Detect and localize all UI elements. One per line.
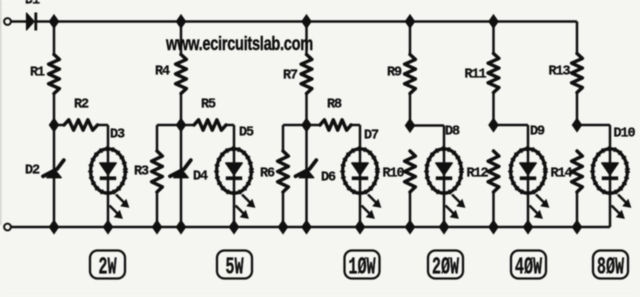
svg-text:D5: D5 — [239, 126, 254, 141]
resistor R10 — [405, 151, 416, 192]
svg-text:5W: 5W — [225, 254, 244, 282]
bottom rail wire — [11, 226, 610, 229]
resistor R7 — [301, 55, 312, 94]
wire: rail to R4 — [180, 22, 183, 55]
node (stage 4 mid junction) — [405, 119, 414, 132]
junction: R3 on bottom rail — [152, 220, 161, 233]
LED D9 — [527, 148, 530, 227]
svg-text:R8: R8 — [327, 98, 342, 113]
svg-text:R1: R1 — [30, 66, 45, 81]
node C (top rail junction, stage 3) — [302, 15, 311, 28]
svg-text:D2: D2 — [25, 164, 40, 179]
resistor R8 — [307, 124, 321, 127]
svg-text:1ØW: 1ØW — [348, 254, 376, 282]
junction: D5 on bottom rail — [229, 220, 238, 233]
wire: R3 to bottom rail — [156, 192, 159, 227]
wire: rail to R11 — [492, 22, 495, 54]
junction: D2 on bottom rail — [49, 220, 58, 233]
svg-text:D8: D8 — [445, 125, 460, 140]
wire: node to R6 — [283, 124, 307, 127]
resistor R1 — [49, 55, 60, 94]
resistor R9 — [405, 55, 416, 94]
wire: R5 to D5 — [226, 124, 234, 127]
input terminal (top) — [4, 18, 11, 25]
wire: R6 to bottom rail — [282, 192, 285, 227]
node (stage 5 mid junction) — [489, 118, 498, 131]
node E (top rail junction, stage 5) — [489, 15, 498, 28]
wire: R4 to node — [180, 94, 183, 126]
value label 10W box — [345, 251, 380, 279]
wire: R7 to node — [305, 94, 308, 126]
node (stage 1 mid junction) — [49, 118, 58, 131]
LED D10 — [609, 148, 612, 192]
resistor R11 — [488, 54, 499, 93]
svg-text:R14: R14 — [550, 167, 572, 182]
junction: D3 on bottom rail — [103, 220, 112, 233]
junction: R14 on bottom rail — [572, 220, 581, 233]
svg-text:R11: R11 — [464, 68, 486, 83]
resistor R12 — [488, 151, 499, 192]
svg-text:D6: D6 — [321, 171, 336, 186]
node (stage 2 mid junction) — [176, 118, 185, 131]
zener diode D4 — [180, 125, 183, 227]
LED D7 — [359, 148, 362, 227]
svg-text:R13: R13 — [548, 65, 570, 80]
wire: R10 to bottom rail — [409, 192, 412, 227]
wire: R12 to bottom rail — [492, 192, 495, 227]
svg-text:R7: R7 — [283, 69, 298, 84]
svg-text:D3: D3 — [110, 128, 125, 143]
resistor R13 — [572, 54, 583, 93]
wire: node to R3 — [157, 124, 181, 127]
wire: R1 to node — [53, 94, 56, 126]
resistor R5 — [181, 124, 194, 127]
svg-text:D4: D4 — [193, 170, 208, 185]
zener diode D2 — [53, 125, 56, 227]
LED D3 light arrows — [116, 195, 127, 206]
svg-text:D10: D10 — [613, 127, 635, 142]
diode D1 — [27, 13, 35, 30]
svg-text:R4: R4 — [155, 65, 170, 80]
wire: node to D9 — [494, 124, 529, 127]
svg-text:R3: R3 — [134, 165, 149, 180]
node B (top rail junction, stage 2) — [176, 15, 185, 28]
junction: R6 on bottom rail — [278, 220, 287, 233]
wire: node to D10 — [577, 124, 610, 127]
wire: bottom rail corner up to D10 — [609, 193, 612, 228]
wire: R14 to bottom rail — [576, 192, 579, 227]
zener diode D6 — [305, 125, 308, 227]
junction: D7 on bottom rail — [355, 220, 364, 233]
svg-text:R6: R6 — [260, 167, 275, 182]
LED D9 light arrows — [536, 195, 547, 206]
left edge scan artifact — [0, 0, 1, 225]
wire: node to D8 — [410, 124, 444, 127]
resistor R4 — [176, 55, 187, 94]
wire: terminal to D1 — [11, 20, 27, 23]
wire: rail to R9 — [409, 22, 412, 55]
node (stage 6 mid junction) — [572, 118, 581, 131]
junction: D4 on bottom rail — [176, 220, 185, 233]
node A (top rail junction, stage 1) — [49, 15, 58, 28]
wire: R2 to D3 — [98, 124, 109, 127]
svg-text:D1: D1 — [25, 0, 40, 8]
svg-text:D7: D7 — [364, 129, 379, 144]
svg-text:www.ecircuitslab.com: www.ecircuitslab.com — [165, 32, 313, 55]
value label 2W box — [90, 251, 125, 279]
wire: R9 to node — [409, 94, 412, 126]
top rail wire — [37, 20, 577, 23]
svg-text:D9: D9 — [530, 125, 545, 140]
LED D10 light arrows — [618, 195, 629, 206]
junction: D8 on bottom rail — [439, 220, 448, 233]
svg-text:8ØW: 8ØW — [597, 254, 625, 282]
svg-text:R12: R12 — [466, 167, 488, 182]
svg-text:2W: 2W — [98, 254, 117, 282]
junction: R10 on bottom rail — [405, 220, 414, 233]
resistor R2 — [54, 124, 64, 127]
svg-text:R9: R9 — [387, 66, 402, 81]
LED D5 — [233, 148, 236, 227]
svg-text:2ØW: 2ØW — [432, 254, 460, 282]
resistor R6 — [278, 151, 289, 192]
junction: R12 on bottom rail — [489, 220, 498, 233]
svg-text:R2: R2 — [74, 98, 89, 113]
wire: R8 to D7 — [351, 124, 360, 127]
LED D7 light arrows — [368, 195, 379, 206]
svg-text:R10: R10 — [382, 167, 404, 182]
value label 80W box — [593, 251, 628, 279]
value label 5W box — [217, 251, 252, 279]
LED D8 — [443, 148, 446, 227]
node D (top rail junction, stage 4) — [405, 15, 414, 28]
output terminal (bottom) — [4, 224, 11, 231]
resistor R3 — [152, 151, 163, 192]
wire: R11 to node — [492, 93, 495, 126]
wire: rail to R7 — [305, 22, 308, 55]
wire: rail to R1 — [53, 22, 56, 55]
LED D8 light arrows — [452, 195, 463, 206]
svg-text:R5: R5 — [201, 98, 216, 113]
resistor R14 — [572, 151, 583, 192]
LED D5 light arrows — [242, 195, 253, 206]
junction: D9 on bottom rail — [523, 220, 532, 233]
LED D3 — [107, 148, 110, 227]
wire: R13 to node — [576, 93, 579, 126]
svg-text:4ØW: 4ØW — [515, 254, 543, 282]
node (stage 3 mid junction) — [302, 118, 311, 131]
junction: D6 on bottom rail — [302, 220, 311, 233]
value label 20W box — [428, 251, 463, 279]
watermark text www.ecircuitslab.com — [165, 32, 313, 55]
value label 40W box — [511, 251, 546, 279]
wire: top rail corner down to R13 — [576, 22, 579, 54]
